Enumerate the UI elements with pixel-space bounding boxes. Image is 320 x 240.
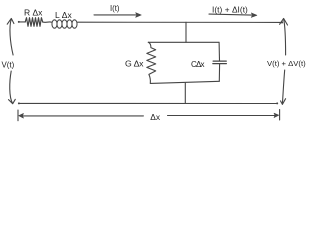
wire bottom main — [19, 102, 277, 104]
svg-text:L Δx: L Δx — [55, 10, 72, 20]
wire right voltage arrow upper segment — [284, 19, 286, 55]
node top-left endpoint dot — [18, 21, 20, 23]
svg-text:G Δx: G Δx — [125, 58, 144, 68]
svg-text:I(t) + ΔI(t): I(t) + ΔI(t) — [212, 4, 248, 14]
wire stub bottom (node to bottom wire) — [184, 83, 186, 104]
svg-text:R Δx: R Δx — [24, 7, 43, 17]
svg-text:V(t) + ΔV(t): V(t) + ΔV(t) — [267, 59, 306, 68]
wire stub top (node to top wire) — [185, 22, 187, 42]
dimension tick left — [17, 110, 19, 121]
inductor L dx (series coil loops) — [52, 20, 77, 28]
node bottom-left endpoint dot — [18, 102, 20, 104]
arrowhead I(t) — [136, 13, 142, 18]
wire dimension line left segment — [23, 115, 143, 117]
arrowhead dimension right — [274, 113, 279, 118]
wire left voltage arrow lower segment — [10, 71, 13, 104]
arrowhead left bottom (down) — [9, 99, 16, 103]
svg-text:V(t): V(t) — [2, 61, 15, 70]
node bottom-right endpoint dot — [276, 102, 278, 104]
svg-text:Δx: Δx — [150, 112, 161, 122]
svg-text:I(t): I(t) — [110, 4, 120, 13]
resistor G dx (shunt vertical zigzag) — [147, 42, 156, 83]
wire shunt box top rail — [148, 41, 219, 43]
dimension tick right — [279, 110, 281, 120]
wire top main — [77, 21, 282, 23]
capacitor C dx (shunt plates) — [213, 61, 227, 64]
wire left voltage arrow upper segment — [10, 19, 13, 55]
arrowhead right bottom (down) — [281, 99, 286, 105]
wire top-left lead — [19, 21, 26, 23]
arrowhead right top (up) — [280, 18, 288, 25]
wire capacitor bottom lead — [218, 64, 220, 81]
wire between R and L — [43, 21, 52, 23]
wire shunt box bottom rail — [150, 81, 219, 83]
wire capacitor top lead — [218, 42, 220, 61]
svg-text:CΔx: CΔx — [191, 60, 205, 69]
wire dimension line right segment — [168, 115, 276, 117]
wire current arrow I(t) — [94, 14, 137, 16]
arrowhead dimension left — [19, 113, 24, 118]
arrowhead I(t)+dI(t) — [251, 13, 257, 18]
wire right voltage arrow lower segment — [282, 70, 284, 104]
node top-right endpoint dot — [281, 21, 283, 23]
arrowhead left top (up) — [7, 18, 14, 24]
resistor R dx (series zigzag) — [25, 18, 43, 27]
wire current arrow I(t)+dI(t) — [209, 14, 252, 15]
